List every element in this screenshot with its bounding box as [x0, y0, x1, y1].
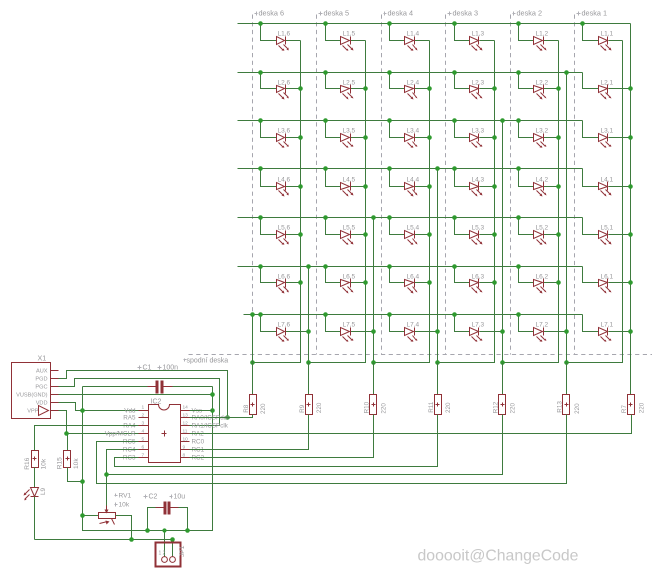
- svg-text:R8: R8: [243, 404, 250, 413]
- svg-text:10k: 10k: [73, 458, 80, 469]
- junction row 4 deska 4: [387, 166, 392, 171]
- LED L1,3: [455, 24, 470, 41]
- junction row 3 deska 5: [323, 118, 328, 123]
- svg-text:11: 11: [183, 429, 188, 435]
- svg-text:VUSB(GND): VUSB(GND): [16, 393, 48, 399]
- svg-text:10u: 10u: [174, 494, 186, 501]
- svg-text:R9: R9: [299, 404, 306, 413]
- junction L3,4 cathode: [427, 135, 432, 140]
- svg-text:10k: 10k: [41, 458, 48, 469]
- junction L2,6 cathode: [298, 86, 303, 91]
- LED L4,3: [455, 169, 470, 187]
- resistor R8 220: [252, 363, 254, 395]
- junction row 2 deska 3: [452, 70, 457, 75]
- junction L6,3 cathode: [492, 280, 497, 285]
- junction row 5 deska 5: [323, 215, 328, 220]
- wire row line 6: [238, 266, 583, 268]
- junction JP1 pin2: [170, 537, 175, 542]
- wire RC3 to R11: [115, 415, 438, 467]
- svg-text:L7,2: L7,2: [536, 322, 549, 329]
- wire deska 5 cathode bus: [309, 41, 366, 363]
- LED L7,1: [583, 315, 599, 332]
- wire GND X1 pin4: [59, 394, 213, 396]
- wire row line 4: [238, 168, 583, 170]
- svg-text:4: 4: [142, 429, 145, 435]
- LED L7,5: [326, 315, 341, 332]
- wire deska 2 return line: [566, 73, 568, 395]
- svg-text:L3,4: L3,4: [407, 128, 420, 135]
- svg-text:L5,1: L5,1: [601, 225, 614, 232]
- wire deska 6 cathode bus: [253, 41, 301, 363]
- junction L7,6 cathode: [306, 329, 311, 334]
- svg-text:L4,5: L4,5: [343, 177, 356, 184]
- svg-text:L3,5: L3,5: [343, 128, 356, 135]
- LED L7,2: [519, 315, 534, 332]
- svg-text:L7,5: L7,5: [343, 322, 356, 329]
- junction GND at Vss row: [210, 408, 215, 413]
- svg-text:13: 13: [183, 413, 189, 419]
- junction row 3 deska 3: [452, 118, 457, 123]
- junction deska 2 bottom: [500, 360, 505, 365]
- wire ICSPclk X1 pin3 to RA1: [59, 379, 220, 426]
- LED L3,5: [326, 121, 341, 138]
- wire deska 1 cathode bus: [567, 41, 623, 363]
- junction L2,3 cathode: [492, 86, 497, 91]
- svg-text:L2,2: L2,2: [536, 80, 549, 87]
- junction L7,2 cathode: [564, 329, 569, 334]
- LED L6,1: [583, 267, 599, 283]
- junction L6,1 cathode: [628, 280, 633, 285]
- junction RV1 left VDD: [80, 513, 85, 518]
- svg-text:AUX: AUX: [36, 369, 48, 375]
- junction row 3 deska 2: [516, 118, 521, 123]
- wire row line 5: [238, 217, 583, 219]
- LED L1,2: [519, 24, 534, 41]
- svg-text:RA5: RA5: [123, 415, 136, 422]
- junction row 6 deska 6: [258, 264, 263, 269]
- resistor R15 10k: [67, 434, 69, 451]
- wire RA0 to R8: [190, 415, 253, 418]
- node deska 2 label: [513, 13, 516, 15]
- wire row line 1: [238, 23, 631, 25]
- LED L4,1: [583, 169, 599, 187]
- junction row 4 deska 2: [516, 166, 521, 171]
- svg-text:2: 2: [142, 413, 145, 419]
- junction row 7 deska 6: [258, 312, 263, 317]
- junction MCLR R15: [64, 431, 69, 436]
- node deska 1 label: [577, 13, 581, 15]
- svg-text:14: 14: [183, 405, 189, 411]
- svg-text:220: 220: [445, 402, 452, 413]
- junction RV1 wiper RC4: [104, 472, 109, 477]
- svg-text:VDD: VDD: [36, 401, 48, 407]
- junction L3,6 cathode: [298, 135, 303, 140]
- junction L2,2 cathode: [556, 86, 561, 91]
- junction L5,4 cathode: [427, 232, 432, 237]
- svg-text:L3,1: L3,1: [601, 128, 614, 135]
- resistor R11 220: [437, 363, 439, 395]
- junction L2,1 cathode: [628, 86, 633, 91]
- capacitor C1 100n: [83, 386, 148, 388]
- wire deska 3 return line: [502, 121, 504, 395]
- svg-text:L4,6: L4,6: [278, 177, 291, 184]
- junction row 6 deska 2: [516, 264, 521, 269]
- svg-text:L7,1: L7,1: [601, 322, 614, 329]
- wire deska 2 cathode bus: [503, 41, 559, 363]
- svg-text:220: 220: [316, 402, 323, 413]
- junction row 1 deska 5: [323, 21, 328, 26]
- svg-text:VPP: VPP: [27, 409, 38, 415]
- junction row 5 deska 2: [516, 215, 521, 220]
- junction L2,5 cathode: [363, 86, 368, 91]
- junction row 2 deska 6: [258, 70, 263, 75]
- LED L2,1: [583, 73, 599, 89]
- connector JP1: [156, 543, 181, 567]
- LED L5,5: [326, 218, 341, 235]
- junction row 2 deska 4: [387, 70, 392, 75]
- junction L7,4 cathode: [435, 329, 440, 334]
- junction L3,5 cathode: [363, 135, 368, 140]
- svg-text:R15: R15: [56, 457, 63, 469]
- wire VDD branch vertical: [83, 387, 213, 531]
- board outline dashed separators: [189, 15, 652, 355]
- svg-text:R12: R12: [492, 401, 499, 413]
- junction deska 4 return on row 4: [435, 166, 440, 171]
- svg-text:PGD: PGD: [35, 377, 47, 383]
- node deska 6 label: [255, 13, 258, 15]
- LED L3,1: [583, 121, 599, 138]
- LED L5,6: [261, 218, 277, 235]
- svg-text:RC0: RC0: [192, 439, 205, 446]
- wire deska 4 return line: [437, 169, 439, 395]
- LED L1,5: [326, 24, 341, 41]
- svg-text:1 2: 1 2: [159, 551, 166, 557]
- LED L4,4: [390, 169, 405, 187]
- junction L5,3 cathode: [492, 232, 497, 237]
- junction L7,5 cathode: [371, 329, 376, 334]
- svg-text:deska 6: deska 6: [259, 9, 285, 18]
- junction row 2 deska 5: [323, 70, 328, 75]
- wire ICSPdat X1 pin2 to RA0: [59, 371, 228, 418]
- LED L3,3: [455, 121, 470, 138]
- wire X1 pin1 stub: [58, 370, 60, 372]
- LED L2,5: [326, 73, 341, 89]
- LED L9: [34, 468, 36, 488]
- junction deska 4 bottom: [371, 360, 376, 365]
- LED L7,6: [261, 315, 277, 332]
- svg-text:L2,5: L2,5: [343, 80, 356, 87]
- junction L3,1 cathode: [628, 135, 633, 140]
- junction row 7 deska 2: [516, 312, 521, 317]
- svg-text:L6,3: L6,3: [472, 274, 485, 281]
- svg-text:7: 7: [142, 453, 145, 459]
- junction C2 left GND rail: [145, 528, 150, 533]
- junction L6,2 cathode: [556, 280, 561, 285]
- wire row line 2: [238, 72, 583, 74]
- junction row 1 deska 2: [516, 21, 521, 26]
- wire row 7 to R8: [252, 315, 254, 363]
- junction deska 1 bottom: [564, 360, 569, 365]
- LED L1,6: [261, 24, 277, 41]
- wire RC2 to R10: [190, 415, 374, 458]
- svg-text:8: 8: [183, 453, 186, 459]
- svg-text:L4,3: L4,3: [472, 177, 485, 184]
- LED L5,3: [455, 218, 470, 235]
- junction ICSPdat at RA0 row: [225, 415, 230, 420]
- svg-text:L5,5: L5,5: [343, 225, 356, 232]
- svg-text:L4,2: L4,2: [536, 177, 549, 184]
- junction L5,2 cathode: [556, 232, 561, 237]
- svg-text:deska 2: deska 2: [517, 9, 543, 18]
- svg-text:L1,6: L1,6: [278, 31, 291, 38]
- LED L3,2: [519, 121, 534, 138]
- svg-text:220: 220: [510, 402, 517, 413]
- svg-text:L6,1: L6,1: [601, 274, 614, 281]
- svg-text:L5,4: L5,4: [407, 225, 420, 232]
- LED L1,4: [390, 24, 405, 41]
- LED L2,6: [261, 73, 277, 89]
- svg-text:220: 220: [638, 402, 645, 413]
- junction row 7 deska 3: [452, 312, 457, 317]
- junction row 7 deska 5: [323, 312, 328, 317]
- junction deska 5 bottom: [306, 360, 311, 365]
- LED L4,2: [519, 169, 534, 187]
- svg-text:3: 3: [142, 421, 145, 427]
- svg-text:C1: C1: [143, 365, 152, 372]
- junction L3,3 cathode: [492, 135, 497, 140]
- junction deska 6 return on row 6: [306, 264, 311, 269]
- svg-text:deska 5: deska 5: [324, 9, 350, 18]
- wire deska 1 return line: [630, 24, 632, 395]
- junction L7,3 cathode: [500, 329, 505, 334]
- junction row 5 deska 3: [452, 215, 457, 220]
- svg-text:deska 4: deska 4: [388, 9, 414, 18]
- svg-text:220: 220: [260, 403, 267, 414]
- connector X1: [12, 363, 51, 419]
- svg-text:L2,6: L2,6: [278, 80, 291, 87]
- junction VDD at IC Vdd row: [80, 408, 85, 413]
- svg-text:JP1: JP1: [179, 545, 186, 557]
- svg-text:X1: X1: [38, 354, 47, 363]
- svg-text:100n: 100n: [163, 365, 179, 372]
- LED L2,2: [519, 73, 534, 89]
- svg-text:L3,6: L3,6: [278, 128, 291, 135]
- junction L4,2 cathode: [556, 184, 561, 189]
- svg-text:L3,2: L3,2: [536, 128, 549, 135]
- wire RA4 row to R16: [35, 426, 139, 451]
- junction L4,3 cathode: [492, 184, 497, 189]
- junction row 3 deska 4: [387, 118, 392, 123]
- resistor R10 220: [373, 363, 375, 395]
- LED L6,5: [326, 267, 341, 283]
- svg-text:C2: C2: [149, 494, 158, 501]
- svg-text:L7,4: L7,4: [407, 322, 420, 329]
- junction row 4 deska 6: [258, 166, 263, 171]
- wire RC1 to R9: [190, 415, 309, 450]
- LED L4,5: [326, 169, 341, 187]
- junction row 6 deska 5: [323, 264, 328, 269]
- svg-text:L6,6: L6,6: [278, 274, 291, 281]
- junction C2 right GND rail: [185, 528, 190, 533]
- svg-text:220: 220: [574, 403, 581, 414]
- svg-text:5: 5: [142, 437, 145, 443]
- resistor R13 220: [566, 363, 568, 395]
- node deska 4 label: [384, 13, 387, 15]
- svg-text:10: 10: [183, 437, 189, 443]
- svg-text:RA1/ICSPclk: RA1/ICSPclk: [192, 423, 229, 430]
- svg-text:L1,3: L1,3: [472, 31, 485, 38]
- junction L3,2 cathode: [556, 135, 561, 140]
- junction row 7 deska 4: [387, 312, 392, 317]
- svg-text:L3,3: L3,3: [472, 128, 485, 135]
- svg-text:L7,3: L7,3: [472, 322, 485, 329]
- wire deska 3 cathode bus: [438, 41, 495, 363]
- LED L5,2: [519, 218, 534, 235]
- svg-text:L6,4: L6,4: [407, 274, 420, 281]
- svg-text:L1,4: L1,4: [407, 31, 420, 38]
- svg-text:RV1: RV1: [119, 493, 132, 500]
- LED L5,1: [583, 218, 599, 235]
- wire row line 7: [244, 314, 583, 316]
- wire JP1 pin1 to GND rail: [164, 531, 166, 557]
- LED L6,4: [390, 267, 405, 283]
- svg-text:L9: L9: [40, 487, 47, 495]
- svg-text:L2,3: L2,3: [472, 80, 485, 87]
- resistor R12 220: [502, 363, 504, 395]
- wire VPP X1 pin6 to MCLR: [59, 411, 139, 434]
- svg-text:220: 220: [381, 403, 388, 414]
- svg-text:Vdd: Vdd: [124, 408, 136, 415]
- node deska 3 label: [448, 13, 452, 15]
- resistor R16 10k: [32, 451, 39, 468]
- junction row 1 deska 1: [580, 21, 585, 26]
- LED L2,4: [390, 73, 405, 89]
- svg-text:1: 1: [142, 405, 145, 411]
- svg-text:R10: R10: [363, 401, 370, 413]
- svg-text:L1,1: L1,1: [601, 31, 614, 38]
- LED L3,4: [390, 121, 405, 138]
- junction row 6 deska 3: [452, 264, 457, 269]
- svg-text:L2,4: L2,4: [407, 80, 420, 87]
- junction L4,6 cathode: [298, 184, 303, 189]
- junction L5,1 cathode: [628, 232, 633, 237]
- microcontroller IC2: [149, 405, 181, 463]
- svg-text:L6,5: L6,5: [343, 274, 356, 281]
- svg-text:9: 9: [183, 445, 186, 451]
- junction L6,4 cathode: [427, 280, 432, 285]
- svg-text:L4,1: L4,1: [601, 177, 614, 184]
- junction row 1 deska 3: [452, 21, 457, 26]
- LED L1,1: [583, 24, 599, 41]
- junction deska 3 bottom: [435, 360, 440, 365]
- svg-text:L1,5: L1,5: [343, 31, 356, 38]
- junction L5,6 cathode: [298, 232, 303, 237]
- svg-text:L2,1: L2,1: [601, 80, 614, 87]
- svg-text:deska 1: deska 1: [582, 9, 608, 18]
- wire RC5 to R13: [97, 415, 567, 484]
- junction L4,5 cathode: [363, 184, 368, 189]
- svg-text:L7,6: L7,6: [278, 322, 291, 329]
- svg-text:10k: 10k: [119, 502, 130, 509]
- node spodni deska label: [184, 359, 187, 361]
- junction L5,5 cathode: [363, 232, 368, 237]
- svg-text:12: 12: [183, 421, 189, 427]
- svg-text:6: 6: [142, 445, 145, 451]
- junction row 5 deska 6: [258, 215, 263, 220]
- resistor R9 220: [308, 363, 310, 395]
- svg-text:deska 3: deska 3: [453, 9, 479, 18]
- junction row 5 deska 4: [387, 215, 392, 220]
- junction row 1 deska 4: [387, 21, 392, 26]
- junction GND pin4 tap: [210, 392, 215, 397]
- junction L6,6 cathode: [298, 280, 303, 285]
- wire Vss row: [190, 410, 213, 412]
- svg-text:L6,2: L6,2: [536, 274, 549, 281]
- LED L4,6: [261, 169, 277, 187]
- svg-text:R16: R16: [24, 457, 31, 469]
- junction row 1 deska 6: [258, 21, 263, 26]
- wire deska 6 return line: [308, 267, 310, 395]
- wire RC4 to R12: [107, 415, 503, 475]
- resistor R7 220: [630, 363, 632, 395]
- junction deska 3 return on row 3: [500, 118, 505, 123]
- junction row 7 R8 tap: [250, 312, 255, 317]
- LED L5,4: [390, 218, 405, 235]
- svg-text:L5,6: L5,6: [278, 225, 291, 232]
- LED L7,4: [390, 315, 405, 332]
- wire VDD X1 pin5: [59, 403, 139, 411]
- LED L6,2: [519, 267, 534, 283]
- node deska 5 label: [319, 13, 323, 15]
- svg-text:Vpp/MCLR: Vpp/MCLR: [105, 431, 136, 438]
- junction L4,1 cathode: [628, 184, 633, 189]
- junction L7,1 cathode: [628, 329, 633, 334]
- junction L4,4 cathode: [427, 184, 432, 189]
- junction JP1 pin1: [162, 528, 166, 532]
- LED L6,6: [261, 267, 277, 283]
- LED L6,3: [455, 267, 470, 283]
- wire RA2 to R7: [190, 415, 632, 434]
- svg-text:L5,3: L5,3: [472, 225, 485, 232]
- junction row 6 deska 4: [387, 264, 392, 269]
- junction RV1 right rail: [129, 537, 134, 542]
- trimmer RV1 10k: [83, 515, 99, 517]
- svg-text:L5,2: L5,2: [536, 225, 549, 232]
- svg-text:spodní deska: spodní deska: [187, 358, 229, 365]
- LED L7,3: [455, 315, 470, 332]
- junction L6,5 cathode: [363, 280, 368, 285]
- LED L3,6: [261, 121, 277, 138]
- wire deska 4 cathode bus: [374, 41, 430, 363]
- svg-text:R7: R7: [621, 405, 628, 414]
- junction deska 5 return on row 5: [371, 215, 376, 220]
- svg-text:L4,4: L4,4: [407, 177, 420, 184]
- svg-text:R11: R11: [428, 401, 435, 413]
- junction VDD R15 bottom: [80, 479, 85, 484]
- svg-text:dooooit@ChangeCode: dooooit@ChangeCode: [418, 548, 579, 565]
- wire row line 3: [238, 120, 583, 122]
- junction row 2 deska 2: [516, 70, 521, 75]
- wire cathode rail to JP1: [35, 540, 173, 557]
- LED L2,3: [455, 73, 470, 89]
- svg-text:IC2: IC2: [151, 399, 162, 406]
- junction row 4 deska 3: [452, 166, 457, 171]
- svg-text:R13: R13: [557, 401, 564, 413]
- junction row 3 deska 6: [258, 118, 263, 123]
- junction deska 2 return on row 2: [564, 70, 569, 75]
- svg-text:L1,2: L1,2: [536, 31, 549, 38]
- junction L2,4 cathode: [427, 86, 432, 91]
